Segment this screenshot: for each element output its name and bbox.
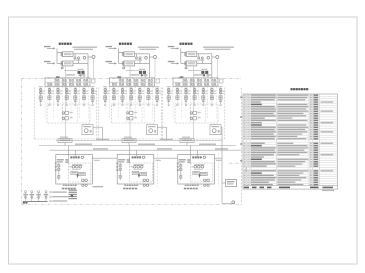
schedule row 20 model/spec <box>277 138 306 139</box>
control bus line B <box>50 149 242 151</box>
table outer frame <box>243 94 338 189</box>
wire motor drop (unit 2) <box>166 127 168 140</box>
branch breaker contact 4 (unit 1) <box>65 88 68 91</box>
branch breaker contact 5 (unit 2) <box>139 88 142 91</box>
earth bus bar <box>23 200 48 202</box>
branch tail wire 4 (unit 3) <box>194 102 196 104</box>
incoming feeder 1 arrow (unit 3) <box>171 48 179 50</box>
apparatus cluster row1-6 (unit 1) <box>84 79 86 81</box>
schedule row 24 quantity <box>313 147 318 148</box>
schedule row 8 seq no <box>244 111 246 112</box>
schedule row 40 quantity <box>313 184 318 185</box>
schedule row 34 code <box>247 170 249 171</box>
circuit breaker QF2 (unit 1) <box>63 61 74 66</box>
schedule row 2 code <box>247 97 249 98</box>
cabinet switch S1 (unit 2) <box>119 176 121 179</box>
branch device box 5 (unit 1) <box>74 96 77 100</box>
schedule row 19 name <box>251 136 276 137</box>
branch tail terminal 5 (unit 3) <box>203 104 205 106</box>
terminal strip XT (unit 1) <box>58 139 72 143</box>
motor aux contact (unit 2) <box>154 130 156 133</box>
timer block (unit 2) <box>132 171 139 174</box>
schedule row 16 model/spec <box>277 129 305 130</box>
schedule row 29 code <box>247 159 249 160</box>
branch tail terminal 6 (unit 1) <box>83 104 85 106</box>
branch circuit tag 1 (unit 3) <box>170 91 173 92</box>
outgoing cabinet dashed outline (unit 1) <box>47 104 90 123</box>
schedule row 16 quantity <box>313 129 318 130</box>
branch feeder 2 drop wire (unit 2) <box>113 87 115 101</box>
schedule row 25 seq no <box>244 150 246 151</box>
branch contactor coil 3 (unit 1) <box>57 91 60 94</box>
schedule row 11 code <box>247 118 249 119</box>
panel divider dashed line 3 (unit 2) <box>126 87 128 119</box>
indicator dot (unit 1) <box>77 175 79 177</box>
schedule row 35 model/spec <box>277 173 303 174</box>
earthing terminal 4 <box>45 191 47 193</box>
branch rating tag 4 (unit 2) <box>133 92 136 95</box>
schedule row 15 unit <box>310 127 312 128</box>
branch feeder 7 drop wire (unit 1) <box>92 87 94 101</box>
schedule row 28 code <box>247 157 249 158</box>
branch circuit tag 6 (unit 3) <box>214 91 217 92</box>
schedule row 39 seq no <box>244 182 246 183</box>
apparatus cluster row1-4 (unit 2) <box>134 79 136 81</box>
panel zone boundary (top horizontal dash-dot) <box>21 78 242 80</box>
indicator dot (unit 2) <box>138 175 140 177</box>
branch feeder 6 label (unit 2) <box>146 86 150 87</box>
schedule row 9 unit <box>310 113 312 114</box>
schedule row 14 code <box>247 124 249 125</box>
busbar section label 2 (unit 2) <box>143 74 148 75</box>
surge protector SPD (unit 1) <box>62 112 64 114</box>
schedule row 13 code <box>247 122 249 123</box>
surge protector SPD (unit 3) <box>190 112 192 114</box>
schedule row 14 seq no <box>244 124 246 125</box>
branch feeder 1 drop wire (unit 2) <box>104 87 106 101</box>
voltmeter V (unit 3) <box>216 56 219 59</box>
branch rating tag 6 (unit 2) <box>150 92 153 95</box>
schedule row 34 name <box>251 170 276 171</box>
schedule row 31 unit <box>310 163 312 164</box>
branch contactor coil 3 (unit 2) <box>121 91 124 94</box>
wire feeder riser (unit 3) <box>180 48 182 63</box>
trunk cable line 1 <box>56 140 222 142</box>
schedule row 3 name <box>251 99 275 100</box>
bottom lamps (unit 3) <box>204 184 206 186</box>
wire riser to breaker 2 (unit 3) <box>181 62 187 64</box>
schedule row 6 name <box>251 106 275 107</box>
branch tail terminal 3 (unit 2) <box>122 104 124 106</box>
schedule row 38 seq no <box>244 179 246 180</box>
voltmeter drop wire (unit 3) <box>216 59 218 79</box>
remote signal box <box>226 180 237 187</box>
schedule row 38 code <box>247 179 249 180</box>
branch device box 2 (unit 1) <box>48 96 51 100</box>
schedule row 36 quantity <box>313 175 318 176</box>
schedule row 9 name <box>251 113 274 114</box>
schedule row 27 code <box>247 154 249 155</box>
bus A label 3 <box>199 144 216 145</box>
schedule row 5 quantity <box>313 104 318 105</box>
bus A label 2 <box>138 144 155 145</box>
terminal strip drop (unit 1) <box>64 143 66 146</box>
note text right of cabinet <box>93 186 104 187</box>
schedule row 35 name <box>251 172 262 173</box>
SPD label (unit 2) <box>134 112 137 113</box>
schedule row 40 code <box>247 184 249 185</box>
panel divider dashed line 3 (unit 3) <box>189 87 191 119</box>
apparatus cluster row2-6 (unit 2) <box>148 83 150 85</box>
earth electrode circle <box>232 201 235 204</box>
schedule row 35 seq no <box>244 173 246 174</box>
metering compartment box (unit 3) <box>173 78 218 87</box>
schedule row 18 quantity <box>313 134 318 135</box>
branch tail terminal 7 (unit 2) <box>156 104 158 106</box>
inter-cabinet dashed divider 2 <box>217 154 219 187</box>
schedule row 25 name <box>251 150 275 151</box>
schedule row 18 model/spec <box>277 134 302 135</box>
auxiliary relay (unit 3) <box>185 67 187 69</box>
panel name tag (unit 1) <box>56 76 60 78</box>
schedule row 13 remark <box>321 122 334 123</box>
schedule row 7 model/spec <box>277 108 306 109</box>
branch device box 4 (unit 3) <box>193 96 196 100</box>
cabinet name label below (unit 1) <box>62 188 64 190</box>
branch contactor coil 4 (unit 3) <box>193 91 196 94</box>
apparatus cluster row1-6 (unit 2) <box>148 79 150 81</box>
branch circuit tag 3 (unit 3) <box>188 91 191 92</box>
cabinet left bus (unit 2) <box>119 163 121 180</box>
note text line 2 (unit 1) <box>74 49 93 50</box>
schedule row 11 seq no <box>244 118 246 119</box>
schedule row 20 quantity <box>313 138 318 139</box>
incoming feeder 2 label (unit 3) <box>168 61 175 62</box>
schedule row 9 model/spec <box>277 113 303 114</box>
branch rating tag 3 (unit 3) <box>188 92 191 95</box>
cabinet left label 2 (unit 3) <box>179 161 185 162</box>
panel divider dashed line 1 (unit 1) <box>44 87 46 119</box>
cabinet device tag column (unit 3) <box>187 159 190 160</box>
table group marker B <box>240 116 242 118</box>
schedule row 30 unit <box>310 161 312 162</box>
earthing label 3 <box>36 194 40 196</box>
schedule row 30 code <box>247 161 249 162</box>
relay contact labels (unit 3) <box>194 168 203 171</box>
schedule row 34 seq no <box>244 170 246 171</box>
changeover linkage (unit 1) <box>74 54 76 57</box>
branch contactor coil 2 (unit 1) <box>48 91 51 94</box>
branch circuit tag 6 (unit 2) <box>150 91 153 92</box>
branch rating tag 6 (unit 3) <box>214 92 217 95</box>
current transformer TA (unit 2) <box>139 71 142 74</box>
cabinet fuse FU1 (unit 2) <box>119 165 121 167</box>
cabinet left label 1 (unit 3) <box>179 159 186 160</box>
schedule row 18 code <box>247 134 249 135</box>
metering tap wire (unit 2) <box>126 69 139 71</box>
schedule row 37 seq no <box>244 177 246 178</box>
schedule row 7 quantity <box>313 108 318 109</box>
schedule row 10 code <box>247 115 249 116</box>
signal lamps HL (unit 1) <box>82 179 85 182</box>
schedule row 26 name <box>251 152 276 153</box>
branch outgoing tag 5 (unit 2) <box>139 100 141 102</box>
schedule row 27 remark <box>321 154 334 155</box>
earthing riser 2 <box>31 193 33 202</box>
branch tail terminal 4 (unit 2) <box>130 104 132 106</box>
schedule row 4 quantity <box>313 101 318 102</box>
wire to voltmeter (unit 3) <box>212 56 216 58</box>
cabinet name label below (unit 3) <box>184 188 186 190</box>
table header row texts <box>244 187 249 189</box>
cabinet side note (unit 3) <box>216 160 222 161</box>
branch feeder 5 label (unit 1) <box>73 86 77 87</box>
schedule row 18 seq no <box>244 134 246 135</box>
cabinet riser wire 2 (unit 3) <box>196 150 198 156</box>
current transformer TA (unit 1) <box>78 71 81 74</box>
branch rating tag 2 (unit 1) <box>51 92 54 95</box>
branch tail terminal 2 (unit 2) <box>113 104 115 106</box>
apparatus cluster row1-5 (unit 1) <box>76 79 78 81</box>
earthing clamp 3 <box>38 196 40 198</box>
schedule row 13 quantity <box>313 122 318 123</box>
cabinet terminal circles (unit 3) <box>177 163 179 165</box>
note text line 1 (unit 2) <box>138 47 159 48</box>
schedule row 29 quantity <box>313 159 318 160</box>
schedule row 18 name <box>251 134 274 135</box>
branch rating tag 6 (unit 1) <box>86 92 89 95</box>
schedule row 22 quantity <box>313 143 318 144</box>
panel enclosure dashed border right (unit 2) <box>160 88 162 140</box>
cabinet fuse FU1 (unit 3) <box>180 165 182 167</box>
note item 2 bullet <box>50 196 52 198</box>
cabinet terminal circles (unit 2) <box>116 163 118 165</box>
schedule row 15 code <box>247 127 249 128</box>
branch feeder 1 label (unit 3) <box>167 86 171 87</box>
branch rating tag 2 (unit 2) <box>116 92 119 95</box>
apparatus cluster row2-2 (unit 2) <box>119 83 121 85</box>
branch tail wire 3 (unit 2) <box>122 102 124 104</box>
PT fuse box outside (unit 1) <box>92 79 96 83</box>
schedule row 17 code <box>247 131 249 132</box>
branch tail wire 1 (unit 3) <box>168 102 170 104</box>
cabinet left label 1 (unit 2) <box>118 159 125 160</box>
earthing riser 1 <box>25 193 27 202</box>
schedule row 5 model/spec <box>277 104 307 105</box>
schedule row 3 model/spec <box>277 99 305 100</box>
branch feeder 7 drop wire (unit 2) <box>156 87 158 101</box>
wire motor drop (unit 3) <box>221 127 223 140</box>
branch rating tag 4 (unit 3) <box>196 92 199 95</box>
ammeter A (unit 1) <box>83 57 86 60</box>
branch tail wire 2 (unit 3) <box>176 102 178 104</box>
cabinet fuse FU2 (unit 2) <box>119 168 121 170</box>
schedule row 17 remark <box>321 131 334 132</box>
cabinet title text (unit 2) <box>132 156 134 158</box>
panel divider dashed line 2 (unit 2) <box>117 87 119 119</box>
fan control box (unit 2) <box>147 125 158 135</box>
schedule row 1 quantity <box>313 95 318 96</box>
relay module dashed box (unit 1) <box>68 163 91 182</box>
branch outgoing tag 1 (unit 2) <box>104 100 106 102</box>
stacked cable tags <box>69 190 77 191</box>
schedule row 15 name <box>251 127 276 128</box>
incoming feeder 1 label (unit 2) <box>106 46 113 47</box>
cabinet side note (unit 2) <box>155 160 161 161</box>
schedule row 1 unit <box>310 95 312 96</box>
branch tail wire 3 (unit 3) <box>185 102 187 104</box>
schedule row 27 name <box>251 154 274 155</box>
branch device box 7 (unit 1) <box>91 96 94 100</box>
branch feeder 5 drop wire (unit 2) <box>139 87 141 101</box>
schedule row 3 code <box>247 99 249 100</box>
schedule row 1 code <box>247 95 249 96</box>
branch breaker contact 1 (unit 1) <box>39 88 42 91</box>
schedule row 5 seq no <box>244 104 246 105</box>
schedule row 40 name <box>251 184 273 185</box>
schedule row 10 model/spec <box>277 115 306 116</box>
incoming feeder 1 label (unit 1) <box>44 46 51 47</box>
branch circuit tag 5 (unit 1) <box>77 91 80 92</box>
branch feeder 4 label (unit 2) <box>129 86 133 87</box>
busbar section label 2 (unit 3) <box>207 74 212 75</box>
schedule row 22 remark <box>321 143 334 144</box>
wire cabinet 3 to riser <box>214 157 222 159</box>
surge protector SPD (unit 2) <box>127 112 129 114</box>
branch circuit tag 4 (unit 1) <box>68 91 71 92</box>
panel divider dashed line 1 (unit 3) <box>172 87 174 119</box>
schedule row 13 seq no <box>244 122 246 123</box>
branch feeder 6 drop wire (unit 2) <box>147 87 149 101</box>
wire QF1 output (unit 3) <box>197 53 212 55</box>
schedule row 37 model/spec <box>277 177 306 178</box>
panel divider dashed line 4 (unit 1) <box>70 87 72 119</box>
terminal strip XT (unit 2) <box>122 139 136 143</box>
schedule row 32 quantity <box>313 166 318 167</box>
schedule row 30 quantity <box>313 161 318 162</box>
branch device box 5 (unit 2) <box>138 96 141 100</box>
bottom lamps (unit 1) <box>82 184 84 186</box>
note item 2 text <box>52 196 68 197</box>
schedule row 26 code <box>247 152 249 153</box>
table group marker A <box>240 97 242 99</box>
wire QF1 output (unit 1) <box>73 53 88 55</box>
schedule row 13 unit <box>310 122 312 123</box>
schedule row 14 unit <box>310 124 312 125</box>
kWh meter (unit 2) <box>141 74 143 76</box>
schedule row 39 code <box>247 182 249 183</box>
schedule row 12 quantity <box>313 120 318 121</box>
branch feeder 4 label (unit 1) <box>65 86 69 87</box>
branch feeder 3 drop wire (unit 1) <box>57 87 59 101</box>
schedule row 32 seq no <box>244 166 246 167</box>
schedule row 11 name <box>251 118 265 119</box>
relay coil row label (unit 1) <box>72 164 82 165</box>
schedule row 27 seq no <box>244 154 246 155</box>
schedule row 29 name <box>251 159 262 160</box>
apparatus cluster row2-2 (unit 3) <box>183 83 185 85</box>
branch feeder 4 drop wire (unit 2) <box>130 87 132 101</box>
branch circuit tag 2 (unit 1) <box>51 91 54 92</box>
branch feeder 7 drop wire (unit 3) <box>220 87 222 101</box>
schedule row 8 unit <box>310 111 312 112</box>
circuit title label (unit 2) <box>119 43 121 45</box>
branch breaker contact 1 (unit 2) <box>104 88 107 91</box>
branch device box 3 (unit 2) <box>121 96 124 100</box>
branch device box 1 (unit 2) <box>104 96 107 100</box>
panel enclosure dashed border bottom (unit 1) <box>34 138 97 140</box>
branch rating tag 3 (unit 1) <box>60 92 63 95</box>
contact block (unit 3) <box>200 172 207 175</box>
schedule row 14 quantity <box>313 124 318 125</box>
schedule row 7 unit <box>310 108 312 109</box>
circuit breaker QF1 (unit 2) <box>124 52 135 57</box>
right riser wire <box>221 141 223 204</box>
cabinet riser wire (unit 3) <box>189 145 191 163</box>
table header separator <box>243 185 338 187</box>
incoming feeder 2 arrow (unit 2) <box>109 63 117 65</box>
branch tail wire 5 (unit 2) <box>139 102 141 104</box>
branch feeder 6 label (unit 3) <box>210 86 214 87</box>
right riser bottom run <box>222 203 235 205</box>
schedule row 10 name <box>251 115 276 116</box>
signal lamps HL (unit 2) <box>143 179 146 182</box>
bus A label 1 <box>75 144 92 145</box>
schedule row 24 seq no <box>244 147 246 148</box>
relay coil row label (unit 2) <box>134 164 144 165</box>
branch circuit tag 2 (unit 3) <box>179 91 182 92</box>
branch rating tag 1 (unit 2) <box>107 92 110 95</box>
branch circuit tag 7 (unit 2) <box>159 91 162 92</box>
QF1 terminal circles (unit 1) <box>61 52 63 54</box>
transfer switch contacts (unit 1) <box>74 57 76 59</box>
relay coils KA1-KA3 (unit 3) <box>194 166 197 169</box>
apparatus cluster row2-6 (unit 3) <box>212 83 214 85</box>
table footer sheet text <box>322 190 334 191</box>
metering bus line (unit 3) <box>173 81 218 83</box>
apparatus cluster row2-3 (unit 1) <box>62 83 64 85</box>
branch breaker contact 2 (unit 1) <box>48 88 51 91</box>
branch rating tag 5 (unit 2) <box>141 92 144 95</box>
schedule row 20 unit <box>310 138 312 139</box>
internal wire (unit 3) <box>199 174 201 178</box>
indicator dot (unit 3) <box>199 175 201 177</box>
branch contactor coil 1 (unit 1) <box>39 91 42 94</box>
branch feeder 7 label (unit 3) <box>219 86 223 87</box>
SPD label (unit 1) <box>70 112 73 113</box>
earthing label 1 <box>23 194 27 196</box>
table column lines <box>246 94 248 186</box>
terminal strip label (unit 3) <box>182 137 190 138</box>
wire riser to breaker 1 (unit 1) <box>57 52 63 54</box>
earthing terminal 1 <box>25 191 27 193</box>
branch breaker contact 6 (unit 2) <box>147 88 150 91</box>
QF2 terminal circles (unit 1) <box>61 62 63 64</box>
contact block (unit 2) <box>140 172 147 175</box>
schedule row 35 quantity <box>313 172 318 173</box>
schedule row 37 quantity <box>313 177 318 178</box>
control relay KA (unit 1) <box>62 117 64 119</box>
schedule row 22 code <box>247 143 249 144</box>
wire feeder riser (unit 1) <box>56 48 58 63</box>
voltmeter V (unit 1) <box>92 56 95 59</box>
branch contactor coil 5 (unit 1) <box>74 91 77 94</box>
panel divider dashed line 6 (unit 1) <box>87 87 89 119</box>
meter aux (unit 2) <box>144 74 146 76</box>
relay module dashed box (unit 3) <box>190 163 213 182</box>
branch breaker contact 1 (unit 3) <box>167 88 170 91</box>
panel enclosure dashed border left (unit 2) <box>98 88 100 140</box>
